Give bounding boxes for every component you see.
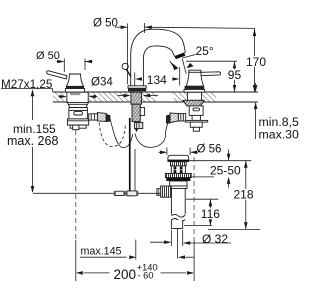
- svg-text:116: 116: [201, 207, 220, 221]
- right handle foot tab: [193, 127, 199, 131]
- label 116: [200, 208, 223, 219]
- label max 268: [6, 135, 60, 147]
- dim max145 line: [80, 256, 126, 258]
- svg-text:Ø34: Ø34: [91, 77, 113, 89]
- deck (mounting surface) hatched cross-section: [53, 92, 258, 102]
- pop-up drain flange dome: [168, 155, 189, 161]
- dim 134: [134, 73, 136, 86]
- pop-up thin rod: [134, 149, 136, 191]
- dim 25 deg stream line: [182, 59, 186, 74]
- centerline drain extension: [176, 228, 178, 258]
- right handle lever: [200, 72, 220, 76]
- spout shank side tab: [140, 108, 144, 116]
- pop-up vertical rod: [129, 118, 131, 196]
- arrows 25deg: [172, 63, 179, 71]
- left handle foot tab: [73, 125, 79, 130]
- deck arrows spout: [118, 95, 130, 97]
- label 170: [245, 56, 267, 67]
- svg-text:218: 218: [234, 188, 254, 202]
- svg-text:200: 200: [114, 267, 137, 282]
- spout gooseneck inner curve: [143, 46, 174, 86]
- dim left handle 50: [57, 61, 64, 63]
- svg-text:Ø 50: Ø 50: [93, 18, 118, 30]
- dim spout top width leader lines: [115, 26, 127, 28]
- rod turnbuckle: [115, 191, 125, 195]
- right handle valve neck: [192, 115, 200, 120]
- right handle shank through deck: [187, 92, 201, 100]
- right hose hex nut: [178, 114, 185, 121]
- max145 arrows: [129, 255, 136, 259]
- right handle body: [186, 70, 203, 86]
- arrow d50 spout right: [121, 25, 128, 29]
- left hose dark tip: [106, 115, 110, 122]
- label min 155: [12, 123, 57, 135]
- dim 170 vertical line: [254, 28, 256, 92]
- centerline left handle: [75, 130, 77, 240]
- M27 leader: [1, 88, 53, 90]
- label 95: [227, 69, 242, 80]
- 200 arrows: [76, 271, 83, 275]
- arrow 95 up/down: [233, 61, 236, 68]
- tailpipe break squiggle: [171, 214, 185, 217]
- right handle mounting nut: [183, 100, 204, 106]
- spout threaded shank through deck: [131, 92, 142, 104]
- 116 arrows: [209, 199, 213, 206]
- svg-text:Ø 56: Ø 56: [197, 144, 222, 156]
- spout base plate: [128, 86, 146, 88]
- left handle shank through deck: [67, 92, 88, 102]
- left handle valve body: [69, 108, 88, 119]
- svg-text:Ø 32: Ø 32: [202, 232, 228, 246]
- drain ball-rod housing: [161, 186, 172, 197]
- dim min155 vertical: [32, 91, 34, 121]
- right braided hose segment: [170, 113, 178, 123]
- svg-text:25°: 25°: [196, 44, 214, 58]
- min8.5 arrows: [254, 85, 258, 92]
- svg-text:134: 134: [147, 73, 167, 87]
- dim min8.5/max30: [255, 83, 257, 91]
- left hose sagging line: [110, 118, 133, 147]
- 25-50 arrows: [227, 154, 231, 161]
- left braided hose segment: [97, 113, 106, 122]
- drain tailpipe upper: [170, 188, 172, 214]
- svg-text:max. 268: max. 268: [7, 134, 58, 148]
- dim 95 vertical + outlet extension: [186, 60, 237, 62]
- left handle lever: [47, 71, 67, 79]
- label 218: [233, 189, 256, 200]
- left handle body: [66, 74, 83, 86]
- left handle mounting nut: [67, 102, 88, 107]
- dim 200 line: [83, 272, 109, 274]
- drain rubber seal: [166, 178, 190, 181]
- left handle hose block: [68, 119, 89, 125]
- right hose sagging line into U: [135, 123, 168, 147]
- left handle block bottom: [70, 125, 86, 128]
- svg-text:max.30: max.30: [259, 127, 299, 141]
- deck arrows spout: [123, 94, 130, 98]
- label 134: [146, 74, 169, 85]
- drain slotted nut: [171, 166, 185, 174]
- arrows 134: [135, 77, 142, 81]
- svg-text:max.145: max.145: [81, 246, 122, 258]
- drain rod entry collar: [157, 189, 161, 196]
- right hose dark tip: [167, 115, 171, 123]
- right handle base: [184, 89, 205, 92]
- right handle valve body: [189, 106, 203, 116]
- left handle dark collar band: [66, 86, 84, 88]
- left hose hex nut: [89, 114, 98, 120]
- 218 arrows: [244, 161, 248, 168]
- svg-text:- 60: - 60: [138, 271, 154, 281]
- min155 arrows: [31, 89, 35, 96]
- svg-text:170: 170: [246, 55, 266, 69]
- spout column and gooseneck outer curve: [131, 29, 186, 86]
- drain tailpipe lower: [171, 220, 182, 228]
- arrowheads: [31, 25, 258, 274]
- arrow 170 up/down: [253, 29, 256, 36]
- arrows d50 handle: [57, 60, 64, 64]
- right handle foot: [190, 122, 202, 127]
- deck arrows left handle: [59, 96, 66, 98]
- drain body: [170, 181, 187, 188]
- dim diam32: [170, 230, 172, 246]
- dim 218 vertical: [245, 161, 247, 230]
- d56 arrows: [160, 151, 167, 155]
- dim 116: [186, 198, 218, 200]
- svg-text:95: 95: [228, 68, 242, 82]
- centerline right handle: [193, 157, 195, 240]
- svg-text:M27x1,25: M27x1,25: [1, 78, 53, 91]
- left hose alternate position dashed U: [99, 123, 125, 147]
- d32 arrows: [164, 240, 171, 244]
- svg-text:25-50: 25-50: [210, 164, 241, 178]
- dim diam56: [166, 148, 168, 156]
- drain washer collar: [165, 173, 191, 177]
- pop-up rod coupling knob: [134, 122, 142, 128]
- left handle base: [65, 89, 84, 93]
- svg-text:Ø 50: Ø 50: [36, 50, 60, 62]
- drain knurled ring: [170, 162, 186, 166]
- pop-up lift rod knob: [122, 63, 128, 69]
- horizontal pop-up rod: [33, 192, 161, 194]
- centerline spout extension: [135, 240, 137, 260]
- right handle dark collar band: [185, 86, 205, 90]
- spout aerator tip: [175, 52, 186, 56]
- right handle flange plate: [186, 120, 208, 122]
- dim 25-50 reference lines: [189, 160, 251, 162]
- deck arrows left handle: [60, 95, 67, 99]
